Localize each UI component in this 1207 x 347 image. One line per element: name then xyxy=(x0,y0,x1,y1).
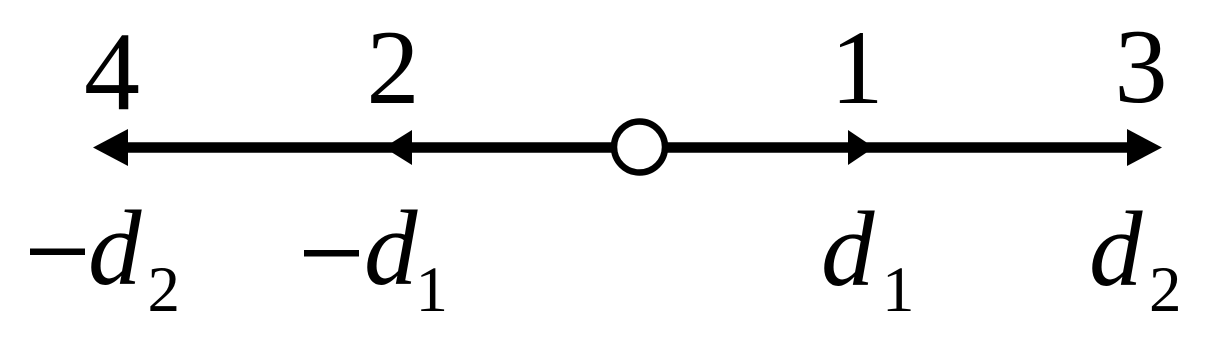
svg-text:2: 2 xyxy=(148,254,181,326)
svg-text:3: 3 xyxy=(1115,8,1168,125)
svg-text:1: 1 xyxy=(882,254,915,326)
svg-text:2: 2 xyxy=(1149,254,1182,326)
svg-text:2: 2 xyxy=(367,9,420,126)
origin circle O xyxy=(614,122,665,173)
arrowhead right end xyxy=(1127,129,1162,166)
axis line xyxy=(112,142,1142,153)
svg-text:d: d xyxy=(821,191,875,309)
svg-text:1: 1 xyxy=(831,9,884,126)
minus sign of -d1 xyxy=(304,250,359,257)
svg-text:d: d xyxy=(88,190,142,308)
svg-text:4: 4 xyxy=(84,10,140,134)
arrowhead mid-right at d1 xyxy=(848,130,874,165)
svg-text:d: d xyxy=(364,190,418,308)
arrowhead left end xyxy=(93,129,128,166)
arrowhead mid-left at -d1 xyxy=(384,130,412,165)
svg-text:d: d xyxy=(1089,191,1143,309)
minus sign of -d2 xyxy=(30,249,85,256)
svg-text:1: 1 xyxy=(416,254,449,326)
